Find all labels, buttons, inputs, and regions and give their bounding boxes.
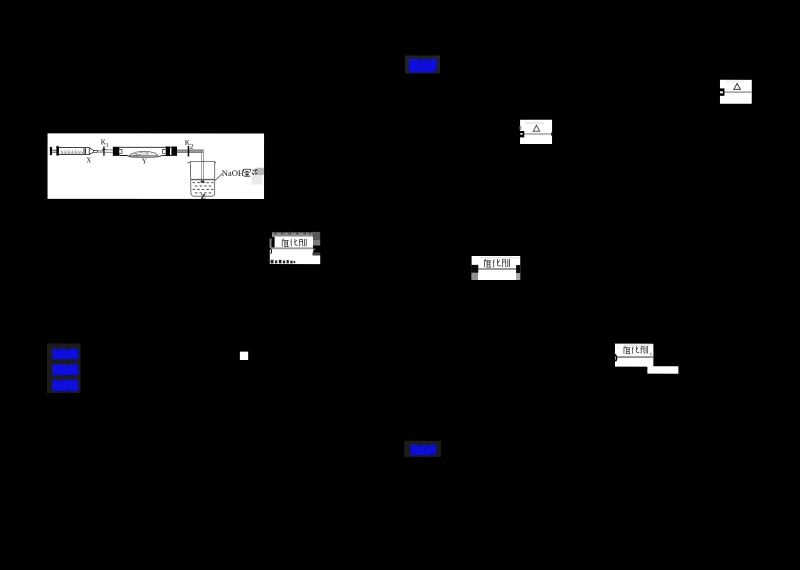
svg-text:Z: Z (201, 192, 206, 201)
gray smudge bottom left (472, 273, 478, 280)
catalyst box C cluster (right) (613, 344, 679, 374)
catalyst box B cluster (middle) (472, 256, 521, 280)
beaker Z outline (187, 162, 216, 197)
gray arrow line (617, 356, 653, 358)
white condition box (472, 256, 521, 280)
text cui hua ji (624, 346, 648, 354)
gray arrow line (478, 268, 516, 270)
text cui hua ji (484, 259, 509, 268)
svg-text:X: X (86, 157, 91, 164)
left gray smudge (270, 238, 272, 247)
fake glyph ye (252, 169, 259, 177)
stopper right A (166, 147, 170, 156)
graduation ticks (61, 150, 82, 154)
white condition box (615, 344, 653, 367)
white rect lower right (647, 366, 678, 373)
delta condition box 1 (top right) (720, 80, 752, 104)
delivery tube vertical (201, 151, 203, 182)
svg-text:NaOH: NaOH (222, 168, 244, 178)
gray patch right (257, 168, 264, 175)
stopcock K2 (187, 146, 189, 157)
liquid surface (191, 179, 214, 180)
powder heap in tube Y (130, 151, 158, 155)
blue link blob top center (405, 56, 440, 74)
gray arrow line (270, 247, 313, 249)
speck (314, 249, 316, 251)
syringe barrel flange (56, 146, 58, 156)
syringe X plunger thumb bar (50, 147, 52, 155)
syringe plunger rod (52, 149, 57, 152)
svg-text:Y: Y (142, 158, 148, 166)
text cui hua ji (282, 239, 306, 247)
barrel taper and nozzle (89, 148, 93, 155)
left blue links (47, 343, 81, 393)
right tick (650, 353, 652, 356)
apparatus figure white panel (48, 133, 265, 201)
gray smudge bottom right (516, 273, 520, 280)
catalyst box A cluster (left) (269, 232, 320, 264)
delta condition box 2 (519, 120, 553, 144)
dark block right (313, 252, 321, 255)
connector tube to K1 (98, 150, 104, 152)
inlet notch (119, 150, 122, 154)
gray band above (272, 232, 313, 237)
black notch left (472, 265, 479, 273)
svg-text:2: 2 (190, 142, 194, 151)
tube tip in liquid (201, 181, 204, 183)
liquid dashes (193, 182, 214, 193)
outlet notch right (163, 150, 166, 154)
pointer line to label (215, 173, 223, 180)
tube from stopper to bend (gray) (177, 150, 204, 153)
black notch right (516, 265, 520, 273)
black squiggle left (269, 248, 271, 254)
small white square (240, 352, 248, 360)
white area under arrow (270, 249, 313, 255)
svg-text:1: 1 (106, 143, 109, 149)
syringe barrel (59, 148, 90, 155)
stopper left of tube Y (113, 147, 120, 156)
stopper right B (171, 147, 177, 156)
plunger seal in barrel (83, 148, 85, 154)
black squiggle left (613, 353, 617, 361)
tube K1 to stopper (105, 149, 113, 151)
bottom blue link blob (404, 441, 441, 457)
right gray blocks (313, 232, 321, 240)
fake glyph rong (243, 169, 250, 176)
white condition box (275, 237, 313, 248)
tube Y outline (119, 146, 172, 148)
small dark text under arrow (271, 260, 296, 264)
stopcock K1 (103, 146, 105, 155)
